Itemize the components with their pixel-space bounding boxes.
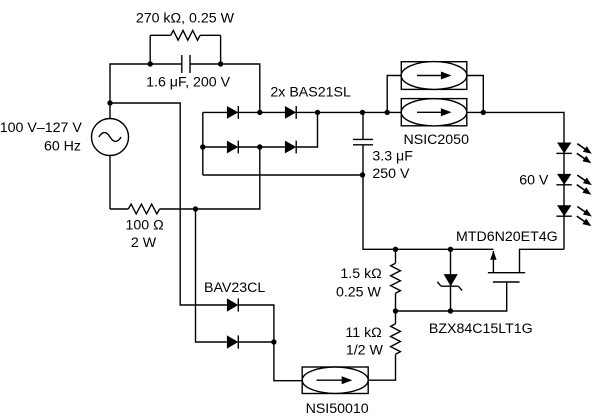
svg-text:2 W: 2 W <box>131 235 157 251</box>
svg-text:0.25 W: 0.25 W <box>336 284 382 300</box>
svg-text:NSIC2050: NSIC2050 <box>404 132 470 148</box>
svg-text:NSI50010: NSI50010 <box>306 401 369 417</box>
svg-text:3.3 μF: 3.3 μF <box>372 148 413 164</box>
svg-text:1/2 W: 1/2 W <box>346 343 384 359</box>
svg-text:100 V–127 V: 100 V–127 V <box>0 120 82 136</box>
svg-text:270 kΩ, 0.25 W: 270 kΩ, 0.25 W <box>136 11 235 27</box>
svg-text:250 V: 250 V <box>372 166 410 182</box>
svg-text:MTD6N20ET4G: MTD6N20ET4G <box>456 229 558 245</box>
svg-text:11 kΩ: 11 kΩ <box>345 325 381 341</box>
svg-text:BZX84C15LT1G: BZX84C15LT1G <box>429 321 533 337</box>
svg-text:1.6 μF, 200 V: 1.6 μF, 200 V <box>146 74 230 90</box>
svg-text:100 Ω: 100 Ω <box>125 218 163 234</box>
svg-text:60 V: 60 V <box>519 172 549 188</box>
svg-text:BAV23CL: BAV23CL <box>204 280 265 296</box>
svg-text:2x BAS21SL: 2x BAS21SL <box>270 85 351 101</box>
svg-text:60 Hz: 60 Hz <box>44 139 81 155</box>
svg-text:1.5 kΩ: 1.5 kΩ <box>340 266 381 282</box>
